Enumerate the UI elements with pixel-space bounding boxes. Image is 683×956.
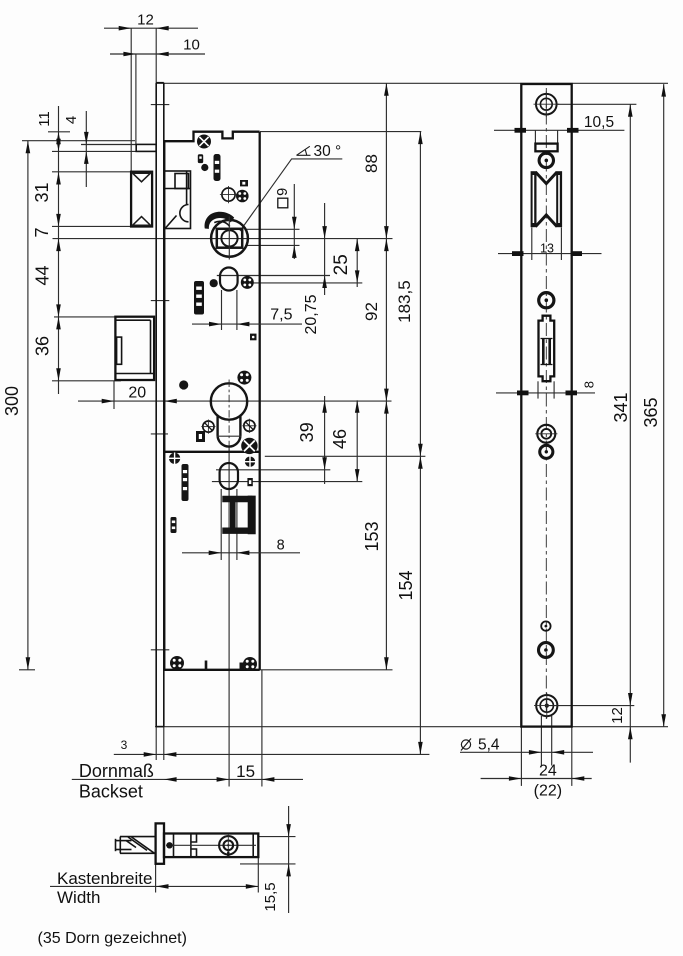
cylinder profile big circle [211,383,247,419]
stop block [240,180,248,186]
dim 31 arrows [56,172,61,185]
bottom view inner wall [173,834,175,858]
roller cutout top chevron [536,172,558,184]
extension line 8r left vertical [537,381,539,398]
svg-text:15: 15 [236,762,255,781]
dim 20 arrows [102,399,115,404]
dim 7 arrows [56,239,61,252]
follower square [217,229,242,248]
latch bolt tip outer [115,839,117,851]
svg-text:20: 20 [128,385,146,402]
svg-text:39: 39 [297,422,317,442]
extension line latch top [52,171,131,173]
hex pin above cylinder [179,380,188,389]
follower cam arm [205,212,235,229]
svg-text:341: 341 [611,392,631,422]
roller latch bottom wedge [133,217,151,226]
dim sq9 line [293,184,295,259]
latch housing inner plate [175,174,189,189]
svg-text:3: 3 [121,738,128,752]
pin dot upper [201,164,208,171]
follower inner circle [221,230,237,246]
svg-text:31: 31 [32,182,52,202]
extension line 15.5 top [259,836,296,838]
case right edge [259,132,261,670]
case outline [164,132,260,142]
svg-text:10,5: 10,5 [584,114,614,131]
extension line 13 left vertical [531,227,533,260]
screw lower mid [539,643,554,658]
extension line oval upper center [217,275,330,277]
dim 10 line [110,53,205,55]
extension line vertical faceplate face [155,28,157,82]
hook drive inner bar [230,502,236,528]
extension line follower axis [53,238,393,240]
extension line case bottom left [19,669,35,671]
svg-text:8: 8 [277,538,285,554]
roller cutout bottom chevron [536,215,558,227]
follower vertical centerline [228,217,230,260]
small rect right of lower oval [247,478,252,486]
bottom view screw shaft tick [227,852,229,858]
lever inside right bar [548,339,551,365]
bottom screw foot [240,663,245,671]
roller cutout right bar [556,171,562,227]
big screw at divider [241,438,257,454]
faceplate tick screw2 [151,300,170,302]
screw pair upper big [535,425,557,443]
dim 300 line [27,141,29,670]
svg-text:9: 9 [275,188,291,196]
cylinder profile slot [218,416,241,447]
bottom tick pin [205,661,208,671]
roller cutout left bar [531,171,537,227]
extension line vertical 12 left [130,28,132,172]
svg-text:25: 25 [331,254,352,275]
extension line plate bottom datum [155,726,668,728]
extension line 10.5 left vertical [534,130,536,143]
guide block left [196,431,205,442]
extension line tab bottom [52,150,136,152]
dim 13 line [498,253,602,255]
screw right of 20dim [237,371,251,385]
latch housing [164,171,191,229]
svg-text:24: 24 [539,763,557,780]
svg-text:(22): (22) [534,783,562,800]
dim 24 line [481,778,592,780]
dim 8 right line [496,392,595,394]
top screw hole [534,91,560,117]
roller latch bolt box [131,172,152,227]
latch housing spring arc [180,205,189,222]
latch bolt tip top bar [116,840,132,842]
extension line 8 right vertical [236,489,238,560]
extension line 154 bottom [114,753,430,755]
extension line 12 screw right [547,705,634,707]
stop square mid [250,334,257,341]
dim 105 line [494,129,624,131]
faceplate side view left edge [155,83,157,727]
hook bolt clip [117,337,122,364]
bottom screw hole [534,693,560,719]
bottom view case outline [164,834,258,858]
dim backset 15 line [72,778,303,780]
bottom view case right inner line [252,834,254,858]
latch bolt tip inner [119,837,121,854]
angle symbol [297,146,311,155]
follower cam inner arc [214,221,230,226]
extension line 24 right vertical [571,727,573,786]
case left edge [163,141,165,670]
screw mid plate [539,293,554,308]
dia symbol [461,739,471,751]
slotted guide bar middle [194,281,204,315]
follower nut circle [211,220,248,257]
screw below guide [539,153,553,167]
svg-text:300: 300 [2,386,22,416]
hook drive bottom bar [222,528,252,534]
svg-text:20,75: 20,75 [303,294,320,334]
latch housing shelf [164,188,191,190]
slotted stop lower left [171,517,177,533]
case divider [164,451,260,453]
svg-text:5,4: 5,4 [478,737,500,754]
faceplate tick screw1 [151,104,170,106]
dim width line [50,885,258,887]
screw left of cylinder [201,420,215,434]
dim 12 line [104,27,198,29]
extension line dia54 left vertical [540,716,542,766]
extension line 13 right vertical [560,227,562,260]
bottom view partition [190,834,192,858]
extension line faceplate right vertical 3 [163,727,165,760]
svg-text:Width: Width [57,888,100,907]
svg-text:15,5: 15,5 [262,882,279,911]
bottom view notch detail [191,834,197,858]
bottom screw left [170,656,184,670]
screw top left [197,135,211,149]
svg-text:88: 88 [362,154,381,173]
extension line cylinder axis [78,400,392,402]
extension line 39 bottom [216,469,330,471]
bottom view cylinder screw [219,834,237,857]
extension line 8r right vertical [553,381,555,398]
hook bolt cover box [115,317,154,380]
bottom view rivet dot [166,842,172,848]
extension line case edge vertical lower [261,670,263,787]
extension line latch bottom [52,225,131,227]
screw right of cylinder [242,419,256,433]
extension line cylinder axis vertical lower [228,446,230,787]
extension line 15.5 bottom [240,863,296,865]
extension line 300 top [22,140,135,142]
latch bolt wedge top edge [120,836,156,838]
svg-text:Backset: Backset [79,782,143,802]
hook drive right bar [248,496,256,535]
svg-text:(35 Dorn gezeichnet): (35 Dorn gezeichnet) [38,930,187,947]
slotted guide bar lower [182,464,189,501]
slotted guide bar upper [214,154,221,181]
extension line screw center 25 [246,282,362,284]
lever cutout outline [539,316,555,382]
latch bolt wedge diagonal2 [126,841,136,848]
hook bolt cover inner bottom [115,373,154,375]
screw beside roller [236,190,249,203]
latch housing inner vertical [186,171,188,205]
svg-text:30 °: 30 ° [314,143,342,160]
latch guide rectangle [535,144,557,152]
dim 8 left line [182,552,300,554]
svg-text:Kastenbreite: Kastenbreite [57,869,152,888]
svg-text:11: 11 [36,111,53,127]
svg-text:154: 154 [396,570,416,600]
extension line 183.5 bottom [265,455,426,457]
screw below divider right [244,456,255,467]
screw below divider left [169,453,181,465]
dim 25 line [356,239,358,287]
extension line 341 top [557,103,637,105]
upper oval slot [220,268,238,291]
cylinder axis dashed [228,380,230,447]
bottom screw right [243,657,257,671]
hook bolt cover inner right [150,320,152,373]
svg-text:12: 12 [609,707,626,724]
extension line square bottom [245,244,300,246]
dim 4 line [85,111,87,187]
extension line 11 top left [48,131,70,133]
dim 46 line [356,400,358,481]
extension line tab top [81,144,136,146]
dim 11 line [58,106,60,394]
svg-text:7: 7 [32,227,52,237]
dim 75 line [192,323,302,325]
dim dia54 line [460,751,593,753]
extension line 24 left vertical [520,727,522,786]
latch housing diagonal [166,216,177,229]
cylinder lower tick [217,435,241,437]
hook bolt cover inner top [115,319,150,321]
extension line 46 bottom [212,481,362,483]
svg-text:8: 8 [581,381,596,388]
faceplate front view outline [521,84,571,727]
extension line square top [245,228,300,230]
dim 88 92 153 line [385,83,387,670]
bottom view center line [166,844,256,846]
svg-text:92: 92 [362,302,381,321]
svg-text:365: 365 [641,397,661,427]
extension line width left vertical [155,864,157,893]
extension line 10.5 right vertical [557,130,559,143]
extension line top datum y83 [156,82,668,84]
svg-text:12: 12 [137,12,154,29]
small screw lower [541,621,550,630]
small catch upper [198,154,203,163]
svg-text:153: 153 [362,521,382,551]
dim 341 12 line [629,104,631,762]
svg-text:44: 44 [33,265,53,285]
lever inside top tick [541,338,553,340]
hex pin left of oval [210,279,218,287]
latch bolt tip bottom bar [116,849,132,851]
extension line faceplate left vertical 3 [155,727,157,760]
screw right of oval [241,276,254,289]
extension line 7.5 left vertical [221,290,223,330]
dim 44 arrows [56,304,61,317]
extension line 8 left vertical [220,489,222,560]
roller latch top wedge [133,173,151,182]
svg-text:46: 46 [330,429,350,449]
label sq9 square [278,198,288,208]
faceplate bottom cap [156,726,164,728]
dim 36 arrows [56,317,61,330]
lever inside left bar [542,339,545,365]
svg-text:Dornmaß: Dornmaß [79,761,154,781]
faceplate centerline dashed [545,88,547,723]
dim 155 line [288,806,290,913]
faceplate tick screw3 [151,433,168,435]
svg-text:10: 10 [183,37,200,54]
svg-text:183,5: 183,5 [395,280,414,323]
extension line 7.5 right vertical [236,290,238,330]
leader 30deg [240,159,342,231]
latch bolt wedge diagonal [132,837,155,853]
svg-text:13: 13 [540,241,554,255]
svg-text:4: 4 [63,116,80,124]
fixing tab [136,144,156,151]
faceplate tick screw4 [151,649,170,651]
extension line vertical 10 left [135,54,137,145]
faceplate side view right edge [163,83,165,727]
extension line case bottom right [259,669,393,671]
latch bolt wedge bottom edge [120,852,156,854]
faceplate top cap [156,82,164,84]
extension line hook bottom [52,380,121,382]
svg-text:36: 36 [33,336,53,356]
extension line case top right [260,131,421,133]
dim 39 line [324,396,326,484]
lever inside bottom tick [541,364,553,366]
dim 2075 line [324,203,326,295]
lower oval slot [220,463,238,489]
dim 3 arrows [144,752,157,757]
svg-text:7,5: 7,5 [270,307,292,324]
bottom view faceplate bar [156,823,164,863]
guide roller circle [220,186,237,203]
screw pair lower dark [540,445,553,458]
dim 365 line [663,84,665,727]
extension line dia54 right vertical [551,716,553,766]
extension line hook left vertical [113,381,115,409]
case bottom edge [163,669,260,671]
extension line width right vertical [257,857,259,892]
extension line hook top [54,316,121,318]
dim 1835 154 line [419,132,421,755]
hook drive top bar [222,496,252,503]
